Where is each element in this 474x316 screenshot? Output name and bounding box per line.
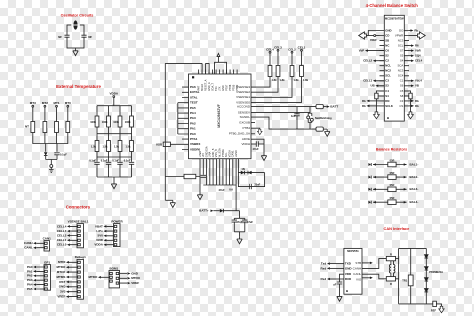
svg-text:USB: USB <box>156 142 163 146</box>
svg-text:REF: REF <box>431 308 437 312</box>
svg-text:SB: SB <box>385 39 389 43</box>
svg-text:uF: uF <box>333 282 337 286</box>
wire bottom join <box>46 160 57 165</box>
node CELL2 in <box>363 59 384 63</box>
wire cell sense staircase <box>251 77 302 103</box>
wire U1 left bus <box>178 103 189 134</box>
svg-text:PTA1: PTA1 <box>190 137 198 141</box>
svg-text:PA3: PA3 <box>27 278 33 282</box>
wire left rail <box>165 63 202 200</box>
label U3 left pin names <box>345 262 353 281</box>
wire top bus <box>97 105 132 107</box>
node MT0 <box>65 101 71 107</box>
svg-text:MT1: MT1 <box>54 101 60 105</box>
svg-text:NF: NF <box>88 35 92 39</box>
node CELL4 <box>266 47 274 65</box>
svg-text:VDDH: VDDH <box>241 142 250 146</box>
svg-text:ADXE: ADXE <box>242 137 250 141</box>
resistor RG8 <box>130 141 134 152</box>
svg-text:1.5k: 1.5k <box>91 144 97 148</box>
wire MT columns <box>33 107 68 121</box>
svg-text:Balance Resistors: Balance Resistors <box>376 148 407 152</box>
svg-text:C3: C3 <box>385 79 389 83</box>
resistor RG6 <box>107 141 111 152</box>
svg-text:1N: 1N <box>241 167 244 171</box>
svg-text:Rb: Rb <box>415 104 419 108</box>
node CELL4 out <box>409 59 423 63</box>
resistor RT1 <box>55 122 59 133</box>
svg-text:GND: GND <box>59 285 67 289</box>
svg-text:VSENSE2: VSENSE2 <box>236 90 250 94</box>
svg-text:PTB0_DAD_SA: PTB0_DAD_SA <box>229 132 250 136</box>
svg-text:PA2: PA2 <box>190 121 196 125</box>
power arrow down can <box>439 306 444 312</box>
svg-text:MTDO: MTDO <box>131 276 140 280</box>
svg-text:CELL1: CELL1 <box>57 238 67 242</box>
svg-text:47uF: 47uF <box>253 147 259 151</box>
wire CANL <box>362 274 386 279</box>
op-amp U3 transceiver body <box>344 248 362 294</box>
capacitor C1 <box>64 35 69 37</box>
svg-text:VB: VB <box>415 84 419 88</box>
node Txd <box>321 262 344 266</box>
svg-text:1.5k: 1.5k <box>102 144 108 148</box>
connector GP1 <box>27 261 51 291</box>
node SQ4 <box>409 54 421 58</box>
ferrite bead FB1 <box>316 105 338 109</box>
svg-text:CAN1: CAN1 <box>43 237 51 241</box>
node RbR1 <box>409 99 419 103</box>
svg-text:NCL: NCL <box>385 64 391 68</box>
diode DZ1 <box>425 255 429 258</box>
svg-text:YREF: YREF <box>370 38 377 42</box>
svg-text:CELL3: CELL3 <box>57 229 67 233</box>
svg-text:CELL0: CELL0 <box>57 243 67 247</box>
svg-text:P6SMB24A: P6SMB24A <box>429 270 443 274</box>
svg-text:TEST: TEST <box>190 101 198 105</box>
svg-text:05R: 05R <box>390 171 395 175</box>
svg-text:PA6: PA6 <box>190 85 196 89</box>
svg-text:47uF: 47uF <box>247 220 253 224</box>
svg-text:CELL4: CELL4 <box>57 224 67 228</box>
svg-text:MXC4J949ZVF: MXC4J949ZVF <box>217 104 221 127</box>
svg-text:Connectors: Connectors <box>66 205 91 210</box>
wire top bridge2 power <box>215 57 227 74</box>
svg-text:TR1: TR1 <box>402 278 407 282</box>
ground U3 <box>337 294 342 301</box>
ground ext-right <box>111 182 116 189</box>
svg-text:Oscillator Circuits: Oscillator Circuits <box>61 13 94 17</box>
svg-text:NC3: NC3 <box>398 39 404 43</box>
power arrow VDD <box>217 53 220 56</box>
svg-text:CANH: CANH <box>353 266 362 270</box>
svg-text:R: R <box>390 253 392 257</box>
svg-text:05R: 05R <box>390 158 395 162</box>
svg-text:PA4: PA4 <box>190 111 196 115</box>
svg-text:VDD: VDD <box>345 272 352 276</box>
wire SENSEV <box>251 111 310 113</box>
resistor RG1 <box>95 116 99 127</box>
svg-text:C1: C1 <box>400 79 404 83</box>
resistor R-bot <box>165 172 200 187</box>
svg-text:SENSEV: SENSEV <box>238 110 250 114</box>
svg-text:Debug1: Debug1 <box>75 255 86 259</box>
ground ADXE <box>261 153 266 160</box>
svg-text:Rb: Rb <box>362 99 366 103</box>
node pin1 marker <box>192 76 194 78</box>
wire mid bus1 <box>97 127 132 141</box>
svg-text:0.1uF: 0.1uF <box>101 158 108 162</box>
resistor RT0 <box>66 122 70 133</box>
label U1 right pin names <box>229 85 251 146</box>
svg-text:GXOUB: GXOUB <box>239 120 250 124</box>
wire mid bus2 <box>97 152 132 162</box>
wire can bottom bus <box>399 303 433 305</box>
svg-text:VDDA: VDDA <box>94 243 103 247</box>
svg-text:VDDA: VDDA <box>110 92 119 96</box>
svg-text:UA: UA <box>229 188 233 192</box>
connector POWER <box>94 219 123 246</box>
svg-text:Rb: Rb <box>362 104 366 108</box>
diode DZ3 <box>425 278 429 281</box>
svg-text:VSENSE1: VSENSE1 <box>236 95 250 99</box>
resistor RT3 <box>31 122 35 133</box>
capacitor CG1 <box>94 162 99 177</box>
wire ADXE <box>251 139 264 153</box>
svg-text:CANL: CANL <box>353 272 361 276</box>
node UB in <box>371 84 385 88</box>
diode DZ2 <box>425 267 429 270</box>
svg-text:MT3: MT3 <box>30 101 36 105</box>
svg-text:C4: C4 <box>385 89 389 93</box>
node VbR <box>409 49 421 53</box>
svg-text:SGNDL: SGNDL <box>240 115 251 119</box>
wire PTB0 stub <box>251 133 255 135</box>
capacitor C-1nF <box>291 107 300 130</box>
ground ext-left <box>49 165 54 173</box>
capacitor CG4 <box>129 162 134 177</box>
node VbP <box>359 49 385 53</box>
resistor R-canh <box>386 253 398 261</box>
svg-text:PA0: PA0 <box>27 265 33 269</box>
svg-text:PA2: PA2 <box>27 274 33 278</box>
svg-text:S3: S3 <box>385 84 389 88</box>
svg-text:VbR: VbR <box>415 49 421 53</box>
node VDDA <box>110 92 119 98</box>
node VbL4 out <box>409 79 422 83</box>
wire U1 top pins <box>199 70 238 75</box>
svg-text:1.8k: 1.8k <box>303 78 309 82</box>
node CELL2 <box>288 47 296 65</box>
svg-text:VSENSE BAL1: VSENSE BAL1 <box>68 219 89 223</box>
svg-text:CD: CD <box>385 33 389 37</box>
capacitor CG3 <box>117 162 122 177</box>
wire U2 right stubs <box>404 31 409 106</box>
svg-text:S2: S2 <box>385 54 389 58</box>
svg-text:R6: R6 <box>415 44 419 48</box>
svg-text:S7: S7 <box>400 49 404 53</box>
capacitor C-out1 <box>232 218 245 232</box>
resistor RC1 <box>300 66 304 77</box>
node STB out <box>362 262 373 265</box>
diode pair snubber <box>238 159 264 190</box>
svg-text:XTAL: XTAL <box>190 95 198 99</box>
svg-text:4-Channel Balance Switch: 4-Channel Balance Switch <box>366 3 419 8</box>
resistor RG3 <box>118 116 122 127</box>
wire U2 gnd loop <box>368 31 379 36</box>
resistor RB4 row <box>368 196 418 204</box>
label U3 right pin names <box>353 261 362 282</box>
svg-text:NC2: NC2 <box>385 69 391 73</box>
svg-text:PA1: PA1 <box>27 269 33 273</box>
wire bottom bus <box>203 184 236 186</box>
svg-text:0.1uF: 0.1uF <box>60 152 67 156</box>
node CELL1 <box>298 45 306 65</box>
wire grid columns <box>97 106 132 116</box>
svg-text:MTCK: MTCK <box>57 270 66 274</box>
ferrite bead FB2 <box>316 127 330 136</box>
svg-text:VDDR0: VDDR0 <box>190 147 201 151</box>
svg-text:LGND: LGND <box>235 150 238 157</box>
capacitor CT <box>54 153 59 160</box>
svg-text:ACCOND: ACCOND <box>237 105 251 109</box>
svg-text:S5: S5 <box>400 54 404 58</box>
fuse F1 <box>433 301 442 306</box>
node VB out <box>409 84 419 88</box>
svg-text:5V0: 5V0 <box>98 234 104 238</box>
power arrow down left <box>374 112 380 119</box>
svg-text:SC4: SC4 <box>398 74 404 78</box>
resistor R-canl <box>386 277 398 286</box>
svg-text:S4: S4 <box>400 59 404 63</box>
svg-text:GND: GND <box>345 266 353 270</box>
wire U2 left stubs <box>380 31 385 106</box>
svg-text:NC: NC <box>385 44 389 48</box>
svg-text:1.8k: 1.8k <box>294 78 300 82</box>
wire to bus <box>33 133 68 144</box>
resistor RC3 <box>276 66 280 77</box>
node DO out <box>409 28 418 32</box>
svg-text:TXD: TXD <box>345 262 352 266</box>
wire bottom bus <box>97 177 132 182</box>
svg-text:NT: NT <box>25 125 29 129</box>
svg-text:05R: 05R <box>390 183 395 187</box>
wire ACCOND bus <box>251 106 316 108</box>
op-amp U2 switch body <box>384 15 404 121</box>
resistor RT2 <box>43 122 47 133</box>
svg-text:MC33972ATEW: MC33972ATEW <box>385 16 404 20</box>
label U2 right pin names <box>395 28 404 107</box>
svg-text:MT0: MT0 <box>65 101 71 105</box>
transistor Q-watchdog <box>307 107 332 130</box>
node input arrow left <box>359 32 367 39</box>
resistor RG2 <box>107 116 111 127</box>
resistor RC2 <box>290 66 294 77</box>
diode D1 <box>44 152 48 159</box>
node Rxd2 <box>321 277 344 281</box>
svg-text:100k: 100k <box>113 120 119 124</box>
svg-text:MTDO: MTDO <box>57 265 66 269</box>
svg-text:VSBRX: VSBRX <box>190 142 200 146</box>
svg-text:NF: NF <box>58 35 62 39</box>
svg-text:CEL1: CEL1 <box>298 45 306 49</box>
svg-text:100k: 100k <box>102 120 108 124</box>
svg-text:PTB4: PTB4 <box>242 126 250 130</box>
svg-text:BOM1: BOM1 <box>109 266 118 270</box>
label U1 left pin names <box>190 85 201 151</box>
svg-text:SCA: SCA <box>398 64 404 68</box>
svg-text:C3: C3 <box>400 99 404 103</box>
svg-text:CELL2: CELL2 <box>57 233 67 237</box>
svg-text:GND: GND <box>385 28 391 32</box>
svg-text:Rb: Rb <box>415 99 419 103</box>
inductor L-choke <box>389 261 395 277</box>
svg-text:100k: 100k <box>90 120 96 124</box>
svg-text:BAL4-: BAL4- <box>410 200 419 204</box>
svg-text:S6: S6 <box>400 84 404 88</box>
wire CANH <box>362 259 386 269</box>
node CD bubble <box>366 35 379 37</box>
svg-text:C2: C2 <box>385 59 389 63</box>
resistor R-swR <box>404 91 412 112</box>
capacitor CG2 <box>106 162 111 177</box>
resistor RB3 row <box>368 183 418 191</box>
label U1 top pin names <box>198 79 240 91</box>
svg-text:VbP: VbP <box>359 49 365 53</box>
svg-text:RXD: RXD <box>345 277 352 281</box>
diode D-batt <box>220 185 240 218</box>
svg-text:PA3: PA3 <box>190 116 196 120</box>
node MT3 <box>30 101 36 107</box>
connector VSENSE BAL1 <box>57 219 89 247</box>
svg-text:1nF: 1nF <box>291 114 296 118</box>
svg-text:05R: 05R <box>390 196 395 200</box>
wire SGNDL lower bus <box>251 117 316 129</box>
svg-text:MT2: MT2 <box>42 101 48 105</box>
svg-text:CS: CS <box>399 104 403 108</box>
svg-text:GND: GND <box>96 238 104 242</box>
svg-text:PA5: PA5 <box>27 287 33 291</box>
svg-text:SCL: SCL <box>398 44 404 48</box>
svg-text:CEL3: CEL3 <box>274 45 282 49</box>
svg-text:CANL: CANL <box>24 246 32 250</box>
svg-text:PA1: PA1 <box>190 127 196 131</box>
svg-text:DN: DN <box>385 99 389 103</box>
svg-text:UB: UB <box>371 84 375 88</box>
node BATT+ <box>199 209 220 213</box>
svg-text:CAN Interface: CAN Interface <box>384 226 411 231</box>
svg-text:Rb: Rb <box>414 28 418 32</box>
svg-text:R: R <box>390 282 392 286</box>
capacitor C-bot <box>201 175 206 177</box>
node MT1 <box>54 101 60 107</box>
ground rail bottom <box>165 200 175 207</box>
resistor R-swL <box>375 91 385 112</box>
svg-text:SCLK: SCLK <box>385 104 393 108</box>
node MT2 <box>42 101 48 107</box>
svg-text:C6: C6 <box>385 49 389 53</box>
node RbL1 <box>362 99 380 103</box>
svg-text:STB: STB <box>355 261 361 265</box>
svg-text:POWER: POWER <box>111 219 123 223</box>
svg-text:BAL2-: BAL2- <box>410 175 419 179</box>
svg-text:BAL3-: BAL3- <box>410 187 419 191</box>
svg-text:0.1uF: 0.1uF <box>112 158 119 162</box>
resistor RG5 <box>95 141 99 152</box>
svg-text:SQ4: SQ4 <box>415 54 421 58</box>
node RbR2 <box>409 104 419 108</box>
wire U1 bottom pins <box>200 159 236 185</box>
svg-text:1.5k: 1.5k <box>114 144 120 148</box>
wire PTB4 reset <box>251 128 262 134</box>
svg-text:3V3: 3V3 <box>60 290 66 294</box>
svg-text:C5: C5 <box>400 89 404 93</box>
svg-text:GP1: GP1 <box>44 261 50 265</box>
label U2 left pin names <box>385 28 393 107</box>
capacitor C-vdd <box>333 274 344 294</box>
wire top bridge1 <box>206 64 210 74</box>
svg-text:VIO: VIO <box>356 278 362 282</box>
wire bus drops <box>46 144 57 152</box>
crystal Y1 <box>71 20 80 29</box>
svg-text:CEL4: CEL4 <box>266 47 274 51</box>
svg-text:External Temperature: External Temperature <box>56 84 101 89</box>
resistor RB2 row <box>368 171 418 179</box>
connector CAN1 <box>24 237 51 251</box>
svg-text:VPWR: VPWR <box>395 33 403 37</box>
svg-text:Rxd: Rxd <box>321 266 327 270</box>
svg-text:VREF: VREF <box>57 295 65 299</box>
svg-text:VbL4: VbL4 <box>415 79 422 83</box>
svg-text:47uF: 47uF <box>236 220 242 224</box>
svg-text:NC3: NC3 <box>398 69 404 73</box>
svg-text:MTMS: MTMS <box>57 275 66 279</box>
svg-text:BAL1-: BAL1- <box>410 162 419 166</box>
svg-text:CANH: CANH <box>24 241 33 245</box>
node R6 <box>409 44 419 48</box>
svg-text:100k: 100k <box>125 120 131 124</box>
svg-text:LiPo: LiPo <box>96 229 103 233</box>
connector Debug1 <box>57 255 87 299</box>
svg-text:BATT+: BATT+ <box>199 209 209 213</box>
resistor TR1 <box>402 275 413 286</box>
svg-text:MCP2551: MCP2551 <box>347 249 359 253</box>
svg-text:S8: S8 <box>400 94 404 98</box>
wire vdda down <box>113 98 115 106</box>
op-amp U1 MCU body <box>189 74 252 159</box>
svg-text:Rxd: Rxd <box>321 277 327 281</box>
ground U1 bottom left <box>197 187 202 200</box>
svg-text:0.1uF: 0.1uF <box>124 158 131 162</box>
svg-text:RST: RST <box>59 280 65 284</box>
resistor RC4 <box>268 66 272 77</box>
resistor RG4 <box>130 116 134 127</box>
svg-text:S4: S4 <box>385 94 389 98</box>
diode DZ4 <box>425 289 429 292</box>
svg-text:PA5: PA5 <box>190 106 196 110</box>
capacitor C-out2 <box>242 218 253 232</box>
ground osc <box>73 48 78 55</box>
svg-text:33nF: 33nF <box>254 182 260 186</box>
node VPWR arrow right <box>409 32 425 39</box>
capacitor C-VDDH <box>251 141 264 151</box>
node VIO out <box>362 277 373 280</box>
svg-text:MTDO: MTDO <box>89 275 98 279</box>
svg-text:0.1uF: 0.1uF <box>89 158 96 162</box>
resistor RB1 row <box>368 158 418 166</box>
svg-text:VBAT: VBAT <box>95 224 103 228</box>
svg-text:CEL2: CEL2 <box>288 47 296 51</box>
